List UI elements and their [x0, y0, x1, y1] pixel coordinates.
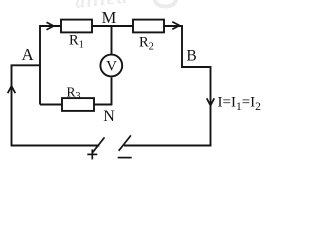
- svg-text:B: B: [186, 48, 196, 65]
- resistor R3: [62, 98, 94, 111]
- op: voltmeter circle U1: [100, 55, 122, 77]
- svg-text:N: N: [103, 108, 115, 125]
- wire: left outer vertical: [11, 65, 13, 146]
- arrow: current down right branch: [207, 98, 215, 105]
- battery: left plate diagonal: [92, 137, 104, 152]
- wire: right vertical to bottom: [210, 66, 212, 145]
- svg-text:M: M: [102, 8, 117, 27]
- resistor R2: [133, 20, 164, 33]
- wire: R3 right lead to riser: [94, 104, 112, 106]
- svg-text:A: A: [22, 45, 35, 64]
- wire: voltmeter bottom riser: [111, 77, 113, 105]
- resistor R1: [61, 20, 92, 33]
- svg-text:V: V: [106, 58, 117, 74]
- wire: R3 left lead: [40, 104, 62, 106]
- battery: minus sign: [118, 157, 132, 159]
- wire: R2 to corner B side: [164, 25, 182, 27]
- arrow: current up left branch: [8, 86, 16, 93]
- wire: bottom right segment: [124, 145, 211, 147]
- watermark fragment (clipped at top): [74, 0, 176, 13]
- wire: right descent with step at B: [182, 25, 210, 67]
- arrow: current out of R2: [172, 22, 179, 30]
- wire: node A horizontal link: [11, 64, 40, 66]
- wire: voltmeter top riser to node M: [111, 26, 113, 55]
- wire: bottom left segment: [12, 145, 100, 147]
- battery: right plate diagonal: [119, 135, 131, 150]
- wire: inner left vertical A branch: [39, 25, 41, 104]
- wire: R1 to R2 through node M: [92, 25, 133, 27]
- battery: plus sign: [87, 153, 97, 155]
- arrow: current into R1: [47, 22, 54, 30]
- wire: top left segment A-corner to R1: [40, 25, 61, 27]
